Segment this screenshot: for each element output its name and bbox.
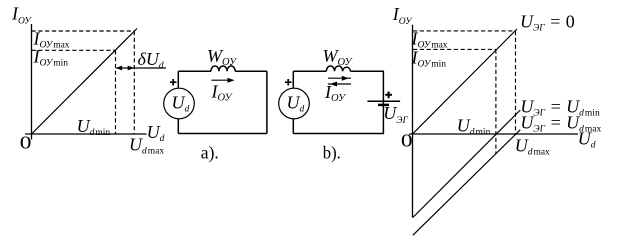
svg-text:0: 0 [401,130,413,151]
svg-text:Udmin: Udmin [77,116,111,138]
svg-text:Udmin: Udmin [457,115,491,137]
svg-text:a).: a). [201,142,219,163]
svg-text:IОУ: IОУ [392,4,413,27]
svg-text:0: 0 [20,132,32,153]
svg-text:Ud: Ud [172,93,190,115]
svg-text:WОУ: WОУ [207,46,238,68]
svg-text:UЭГ = 0: UЭГ = 0 [520,12,575,34]
svg-text:Udmax: Udmax [515,136,550,158]
svg-text:IОУ: IОУ [11,4,32,27]
svg-text:UЭГ: UЭГ [383,103,408,126]
svg-text:Ud: Ud [287,93,305,115]
svg-text:IОУ: IОУ [211,82,234,104]
svg-text:WОУ: WОУ [323,46,354,68]
svg-text:Ud: Ud [147,122,165,144]
svg-text:δUd: δUd [138,49,164,71]
svg-text:b).: b). [323,142,341,163]
